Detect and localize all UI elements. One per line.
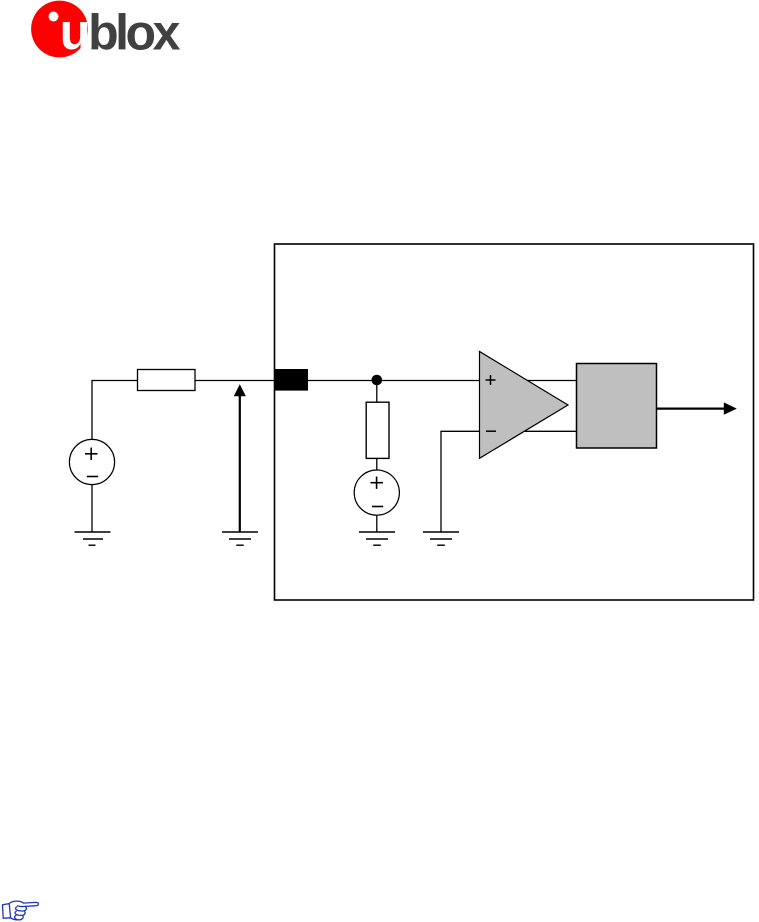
op-amp U1 [480,352,569,459]
output arrow [657,402,737,414]
wire V1 to resistor R1 [92,381,138,440]
wire V1 to ground [91,485,93,532]
resistor R1 [138,370,196,391]
ground under V1 [75,532,111,545]
wire node to resistor R2 [376,380,378,402]
voltage arrow (input level) [234,384,246,532]
wire R1 to pad [195,380,275,382]
resistor R2 [366,402,389,458]
wire R2 to V2 [376,458,378,470]
voltage source V2 [354,470,399,515]
wire V2 to ground [376,515,378,532]
svg-text:u: u [60,3,91,60]
ground on inverting net [423,532,459,545]
voltage source V1 [69,439,114,484]
node junction dot [372,375,383,386]
svg-text:blox: blox [88,4,180,60]
pointing hand note icon [3,901,39,920]
input pin pad [275,369,308,391]
ground under V2 [359,532,395,545]
wire inverting input net [441,431,577,532]
ground under voltage arrow [222,532,258,545]
wire pad to op-amp noninverting input [308,380,577,382]
module boundary box [275,244,754,600]
comparator output block U2 [577,364,657,449]
u-blox logo [31,1,180,61]
